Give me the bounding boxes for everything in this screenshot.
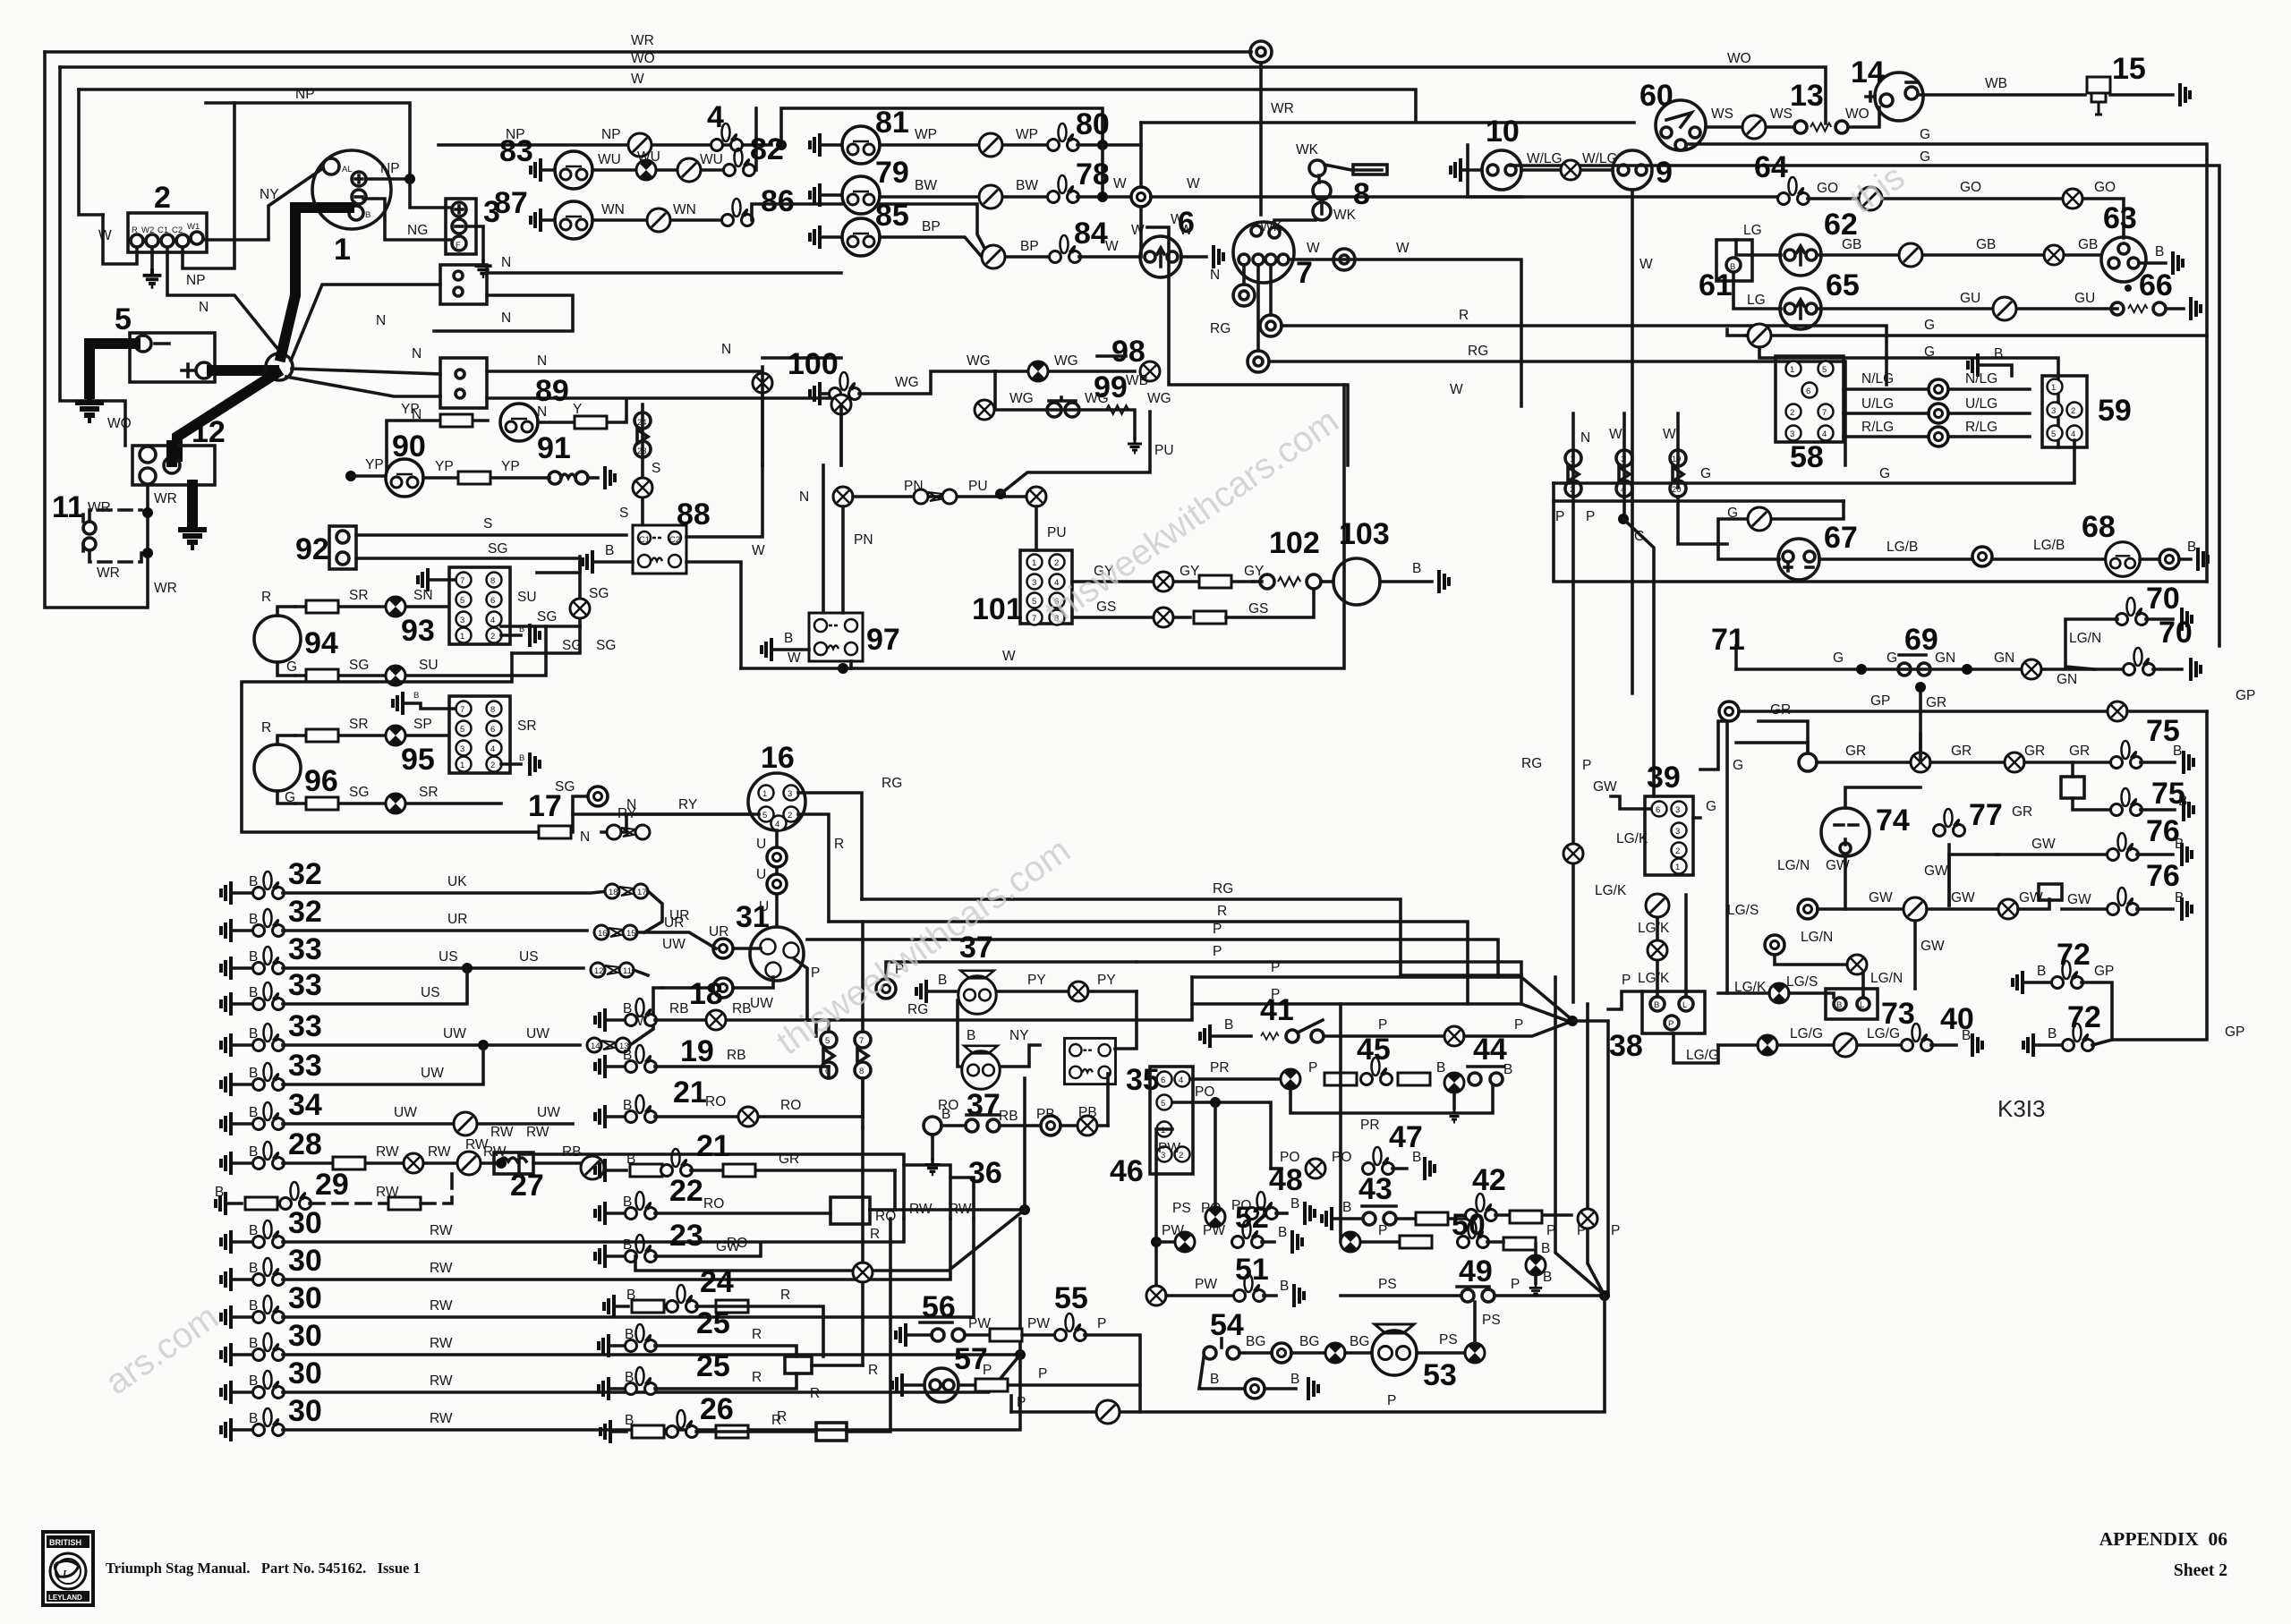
svg-text:7: 7 [1822, 408, 1827, 418]
svg-text:7: 7 [1032, 614, 1036, 624]
svg-text:89: 89 [535, 374, 569, 408]
wire G from 59 down-left [1554, 440, 2074, 483]
svg-text:LG/B: LG/B [1886, 540, 1918, 555]
node NP junction [405, 174, 415, 184]
wire B loop 37a-37b [958, 1000, 959, 1067]
svg-text:4: 4 [775, 820, 779, 829]
svg-text:YP: YP [365, 457, 384, 472]
svg-text:G: G [1924, 318, 1935, 333]
svg-text:33: 33 [288, 1009, 322, 1043]
svg-text:WP: WP [915, 127, 937, 142]
svg-text:95: 95 [401, 743, 435, 777]
svg-text:UW: UW [537, 1105, 560, 1120]
svg-text:G: G [1700, 466, 1711, 481]
headlamp dip switch 31 [750, 927, 804, 981]
svg-text:82: 82 [750, 132, 784, 166]
svg-text:YP: YP [501, 459, 520, 474]
wire N to 16 [573, 812, 752, 816]
stop lamp switch 44 [1469, 1073, 1481, 1085]
wire G bus lower [1511, 166, 2219, 646]
svg-text:APPENDIX 06: APPENDIX 06 [2099, 1528, 2228, 1550]
svg-text:32: 32 [288, 857, 322, 891]
svg-text:30: 30 [288, 1394, 322, 1428]
svg-text:SR: SR [517, 718, 537, 734]
flasher unit 74 [1821, 808, 1869, 856]
lamp 30 row 4 [221, 1343, 231, 1366]
svg-text:2: 2 [1054, 558, 1059, 568]
wire NP junction down to control box 3 [410, 179, 449, 208]
svg-text:LG/S: LG/S [1727, 903, 1759, 918]
wire SG loop around 95 [242, 653, 587, 832]
svg-text:N: N [501, 255, 511, 270]
svg-text:GW: GW [2031, 837, 2056, 852]
svg-text:P: P [1038, 1366, 1047, 1382]
svg-text:RB: RB [727, 1048, 746, 1063]
svg-text:Sheet 2: Sheet 2 [2174, 1561, 2227, 1580]
svg-text:SG: SG [589, 586, 609, 601]
lamp 87 [531, 208, 541, 232]
svg-text:RG: RG [1521, 756, 1542, 771]
switch 43 [1322, 1207, 1332, 1230]
svg-text:45: 45 [1357, 1033, 1391, 1067]
svg-text:66: 66 [2139, 268, 2173, 302]
svg-text:LG/N: LG/N [1870, 971, 1903, 986]
svg-text:S: S [619, 506, 628, 521]
wire N upper box out [487, 271, 841, 275]
thick cable junction to starter fuse 12 [177, 373, 277, 456]
rheostat 27 [494, 1152, 533, 1174]
svg-text:PO: PO [1195, 1084, 1214, 1100]
svg-text:WN: WN [601, 202, 625, 217]
wire NP from alternator to junction [366, 177, 410, 181]
svg-text:WG: WG [967, 353, 991, 369]
reverse lamp 22 [595, 1202, 605, 1225]
svg-text:83: 83 [499, 134, 533, 168]
wire W bus horizontal [741, 385, 1344, 668]
wire N from 2 C1 down [167, 247, 279, 351]
connector box 26 [816, 1423, 847, 1441]
svg-text:74: 74 [1876, 803, 1910, 838]
svg-text:33: 33 [288, 968, 322, 1002]
svg-text:RG: RG [1468, 344, 1488, 359]
svg-text:PW: PW [968, 1316, 991, 1331]
wire P from 31 down to 41 loop [807, 977, 1192, 1020]
svg-text:Triumph Stag Manual. Part No: Triumph Stag Manual. Part No. 545162. Is… [106, 1560, 421, 1577]
svg-text:GO: GO [2094, 180, 2116, 195]
svg-text:G: G [1706, 799, 1716, 814]
svg-text:8: 8 [490, 576, 495, 586]
svg-text:P: P [1271, 960, 1280, 975]
svg-text:1: 1 [2051, 383, 2056, 393]
svg-text:NP: NP [186, 273, 206, 288]
svg-text:W: W [1396, 241, 1410, 256]
svg-text:86: 86 [761, 184, 795, 218]
svg-text:R: R [868, 1363, 878, 1378]
svg-text:P: P [1213, 922, 1222, 937]
svg-text:2: 2 [2071, 406, 2075, 416]
wire G bus upper [1686, 144, 2207, 582]
svg-text:P: P [1622, 973, 1631, 988]
svg-text:UW: UW [443, 1026, 466, 1042]
svg-text:R: R [810, 1386, 820, 1401]
svg-text:WO: WO [1727, 51, 1751, 66]
svg-text:RW: RW [490, 1125, 514, 1140]
wire U/LG row [1844, 412, 2030, 415]
svg-text:UR: UR [664, 915, 684, 931]
svg-text:NY: NY [260, 187, 279, 202]
svg-text:B: B [215, 1185, 224, 1200]
svg-text:1: 1 [1032, 558, 1036, 568]
British Leyland logo [43, 1532, 93, 1605]
svg-text:B: B [1436, 1060, 1445, 1076]
svg-text:G: G [1886, 650, 1897, 666]
svg-text:R: R [752, 1327, 762, 1342]
svg-text:70: 70 [2159, 616, 2193, 650]
svg-text:WB: WB [1126, 373, 1148, 388]
svg-text:SG: SG [562, 638, 582, 653]
svg-text:W: W [631, 72, 644, 87]
svg-text:24: 24 [637, 418, 647, 428]
svg-text:3: 3 [1675, 805, 1680, 815]
svg-text:2: 2 [490, 761, 495, 770]
svg-text:N: N [199, 300, 209, 315]
svg-text:G: G [1924, 344, 1935, 360]
svg-text:LG/B: LG/B [2033, 538, 2065, 553]
wire PU from lamp down to 101 [1035, 506, 1038, 550]
svg-text:SG: SG [349, 785, 369, 800]
svg-text:101: 101 [972, 592, 1023, 626]
svg-text:22: 22 [669, 1174, 703, 1208]
svg-text:RG: RG [1210, 321, 1231, 336]
svg-text:4: 4 [490, 616, 495, 625]
svg-text:24: 24 [700, 1265, 734, 1299]
svg-text:28: 28 [288, 1127, 322, 1161]
svg-text:8: 8 [490, 705, 495, 715]
svg-text:B: B [1278, 1225, 1287, 1240]
thick cable B alternator to junction [281, 208, 349, 356]
svg-text:RW: RW [430, 1298, 453, 1314]
svg-text:RO: RO [703, 1196, 724, 1212]
temp gauge 65 [1780, 288, 1821, 329]
svg-text:Y: Y [573, 402, 582, 417]
svg-text:WG: WG [1147, 391, 1171, 406]
connector box N upper [440, 265, 487, 304]
svg-text:W: W [788, 650, 801, 666]
wire LG/G from 38 [1674, 1033, 1718, 1063]
svg-text:GB: GB [1842, 237, 1861, 252]
svg-text:5: 5 [460, 596, 464, 606]
wire R vertical with lamp [853, 1263, 873, 1282]
connector box 24/25 [785, 1356, 812, 1373]
svg-text:4: 4 [1822, 429, 1827, 439]
svg-text:W: W [1307, 241, 1320, 256]
wire G feed 67 [1718, 501, 1844, 559]
wire UR to ring [734, 947, 761, 950]
svg-text:PR: PR [1360, 1118, 1380, 1133]
sidelamp 32 row UK [221, 881, 231, 905]
svg-text:GR: GR [1926, 695, 1946, 710]
svg-text:5: 5 [2051, 429, 2056, 439]
svg-text:WO: WO [1845, 106, 1869, 122]
door switch 25 row a [599, 1334, 609, 1357]
clock illumination 91 [549, 472, 561, 484]
svg-text:4: 4 [2071, 429, 2075, 439]
svg-text:PY: PY [1097, 973, 1116, 988]
svg-text:BG: BG [1299, 1334, 1319, 1349]
svg-text:W: W [98, 228, 112, 243]
wire PR return loop [1290, 1084, 1493, 1113]
svg-text:30: 30 [288, 1281, 322, 1315]
svg-text:B: B [413, 691, 419, 701]
svg-text:GP: GP [2094, 964, 2114, 979]
svg-text:52: 52 [1235, 1201, 1269, 1235]
lamp on P vertical [1563, 844, 1583, 863]
connector 59 [2042, 376, 2087, 447]
svg-text:PW: PW [1203, 1223, 1225, 1238]
svg-text:N: N [376, 313, 386, 328]
wire N into 88 [686, 465, 762, 537]
temp gauge 6 [1079, 255, 1140, 259]
svg-text:P: P [1582, 758, 1591, 773]
lamp 30 row 3 [221, 1305, 231, 1329]
wire P from 31 down [795, 959, 807, 1020]
connector 80 [1048, 123, 1079, 151]
svg-text:LEYLAND: LEYLAND [48, 1594, 82, 1602]
wire P long vertical with connectors 1/2 [1571, 413, 1575, 1002]
wire W from 9 down [1631, 190, 1634, 693]
svg-text:W: W [1639, 257, 1653, 272]
svg-text:81: 81 [875, 106, 909, 140]
wire N lower box second [487, 398, 841, 465]
svg-text:N: N [1580, 430, 1590, 446]
svg-text:SG: SG [349, 658, 369, 673]
svg-text:2: 2 [490, 632, 495, 642]
wire G frame bottom [1554, 501, 2207, 582]
wire N junction right row1 [292, 369, 440, 374]
svg-text:79: 79 [875, 156, 909, 190]
wire W riser down to 6 [1139, 123, 1143, 257]
lamp 79 [810, 183, 820, 207]
svg-text:N: N [412, 346, 422, 361]
wire SG from 92 [356, 558, 580, 626]
wire W from 7 right [1289, 259, 1521, 406]
bowtie 16/15 [594, 925, 637, 940]
svg-text:WR: WR [154, 581, 177, 596]
svg-text:SN: SN [413, 588, 433, 603]
svg-text:GN: GN [1994, 650, 2014, 666]
svg-text:N: N [580, 829, 590, 845]
svg-text:W: W [1171, 212, 1184, 227]
svg-text:BP: BP [1020, 239, 1039, 254]
svg-text:WS: WS [1711, 106, 1733, 122]
svg-text:11: 11 [52, 490, 84, 524]
svg-text:B: B [1342, 1200, 1351, 1215]
flasher unit 15 [2087, 77, 2110, 115]
svg-text:93: 93 [401, 614, 435, 648]
svg-text:85: 85 [875, 199, 909, 233]
wire GY row to 102 [1072, 580, 1253, 583]
wire RG from 16 [798, 793, 862, 899]
svg-text:LG: LG [1747, 293, 1766, 308]
connector column 19/20 [1676, 413, 1680, 488]
svg-text:96: 96 [304, 764, 338, 798]
main beam warning 34 [221, 1112, 231, 1135]
svg-text:U: U [756, 867, 766, 882]
svg-text:G: G [1634, 529, 1645, 544]
wire N junction row2 [286, 377, 440, 396]
svg-text:49: 49 [1459, 1254, 1493, 1288]
svg-text:90: 90 [392, 429, 426, 463]
svg-text:B: B [1543, 1270, 1552, 1285]
connector block 2 [128, 213, 207, 252]
svg-text:GO: GO [1960, 180, 1981, 195]
svg-text:BG: BG [1350, 1334, 1369, 1349]
svg-text:R: R [1217, 904, 1227, 919]
wire WG top: 100 row riser [762, 356, 841, 360]
svg-text:UK: UK [447, 874, 467, 889]
node NP/W junction [776, 140, 787, 150]
svg-text:L: L [1682, 1000, 1687, 1010]
svg-text:GW: GW [1869, 890, 1893, 906]
connector 84 [1050, 235, 1081, 263]
svg-text:11: 11 [623, 966, 632, 976]
reverse lamp 23 [595, 1245, 605, 1268]
svg-text:GR: GR [2012, 804, 2032, 820]
svg-text:53: 53 [1423, 1358, 1457, 1392]
svg-text:UW: UW [526, 1026, 549, 1042]
svg-text:3: 3 [788, 789, 792, 799]
wire GO row 64 [1808, 199, 2124, 238]
svg-text:SR: SR [349, 717, 369, 732]
svg-text:PR: PR [1210, 1060, 1230, 1076]
svg-text:2: 2 [1570, 485, 1574, 495]
svg-text:PY: PY [1027, 973, 1046, 988]
wire GU row 65-66 [1817, 307, 2117, 310]
svg-text:BP: BP [922, 219, 941, 234]
svg-text:PW: PW [1158, 1141, 1180, 1156]
svg-text:B: B [2037, 964, 2046, 979]
ignition switch 60 [1656, 100, 1706, 150]
battery live cable to junction [212, 365, 274, 376]
svg-text:4: 4 [1179, 1076, 1183, 1085]
wire G row 2 [1759, 347, 2058, 447]
earth arrow under 12 [187, 485, 198, 523]
svg-text:W: W [1105, 239, 1119, 254]
wire W from 97 down [849, 661, 853, 668]
svg-text:RB: RB [999, 1109, 1018, 1124]
ring connector on P [876, 979, 896, 999]
svg-text:G: G [1733, 758, 1743, 773]
washer pump 96 [254, 744, 301, 791]
wire R from 7 down [1269, 265, 1273, 315]
wiper motor 94 [254, 616, 301, 662]
svg-text:PU: PU [968, 479, 988, 494]
wire W 86 up over to 85 [752, 204, 985, 250]
svg-text:BG: BG [1246, 1334, 1265, 1349]
wire R bus [829, 922, 1468, 1004]
wire RG bus [862, 899, 1521, 975]
svg-text:LG/K: LG/K [1734, 980, 1767, 995]
stop lamp 21 row a [595, 1105, 605, 1128]
svg-text:7: 7 [859, 1036, 864, 1046]
svg-text:15: 15 [2112, 52, 2146, 86]
svg-text:RG: RG [1213, 881, 1233, 897]
svg-text:4: 4 [1621, 485, 1625, 495]
svg-text:5: 5 [115, 302, 132, 336]
wire W/LG 10 to 9 [1521, 168, 1613, 172]
wire Y from 89 [538, 401, 626, 422]
oil pressure switch 10 [1451, 158, 1461, 182]
svg-text:N/LG: N/LG [1965, 371, 1997, 387]
svg-text:5: 5 [1161, 1099, 1165, 1109]
svg-text:RY: RY [617, 806, 636, 821]
svg-text:102: 102 [1269, 526, 1320, 560]
svg-text:B: B [1654, 1000, 1659, 1010]
svg-text:98: 98 [1111, 335, 1145, 369]
svg-text:B: B [1503, 1062, 1512, 1077]
svg-text:P: P [1017, 1395, 1026, 1410]
connector box 75 [2061, 777, 2084, 798]
svg-text:B: B [519, 753, 524, 763]
svg-text:B: B [519, 625, 524, 634]
regulator 3 [446, 199, 476, 254]
svg-text:L: L [62, 1569, 69, 1579]
bowtie 7/8 column [855, 1032, 871, 1048]
wire LG/N from 70 [2065, 619, 2117, 669]
fuel gauge 62 [1780, 234, 1821, 276]
svg-text:P: P [811, 965, 820, 981]
svg-text:GP: GP [1870, 693, 1890, 709]
svg-text:NY: NY [1009, 1028, 1029, 1043]
svg-text:WO: WO [631, 51, 655, 66]
svg-text:67: 67 [1824, 521, 1858, 555]
wire G row 69 [1736, 667, 2125, 671]
connector 86 [722, 199, 754, 226]
wire GW upper 76 [1949, 855, 1997, 906]
wire P left end [1009, 1396, 1013, 1412]
wire L to 38 [1684, 895, 1688, 997]
svg-text:88: 88 [677, 497, 711, 531]
wire GR net top [1736, 743, 1808, 753]
svg-text:B: B [1994, 346, 2003, 361]
svg-text:SR: SR [349, 588, 369, 603]
svg-text:WR: WR [97, 565, 120, 581]
svg-text:3: 3 [1790, 429, 1794, 439]
svg-text:2: 2 [1675, 846, 1680, 856]
svg-text:LG/K: LG/K [1595, 883, 1627, 898]
svg-text:YP: YP [401, 402, 420, 417]
wire PO from 46 [1172, 1102, 1271, 1169]
svg-text:W: W [1002, 649, 1016, 664]
wire NP from 2 [183, 103, 234, 268]
svg-text:RY: RY [678, 797, 697, 812]
svg-text:GN: GN [1935, 650, 1955, 666]
svg-text:14: 14 [1851, 55, 1885, 89]
svg-text:25: 25 [696, 1349, 730, 1383]
svg-text:84: 84 [1074, 217, 1108, 251]
wire B ground at 58 top [1968, 353, 1978, 377]
wire GS row [1072, 616, 1190, 619]
wire WO 13 to 14 [1848, 107, 1879, 127]
wire GW into 39 [1611, 796, 1651, 809]
svg-text:GR: GR [1770, 702, 1791, 718]
svg-text:39: 39 [1647, 761, 1681, 795]
wire N from 7 to ring [1242, 265, 1246, 285]
svg-text:R: R [261, 590, 271, 605]
wire WR from 12 down [146, 485, 149, 608]
svg-text:21: 21 [696, 1129, 730, 1163]
lamp 30 row 6 [221, 1418, 231, 1441]
